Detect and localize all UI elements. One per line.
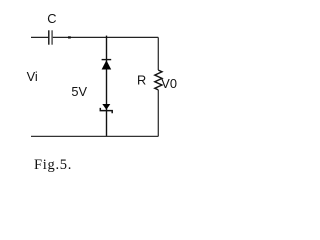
- wire: top rail capacitor to right corner: [53, 36, 159, 38]
- svg-text:5V: 5V: [71, 84, 87, 99]
- wire: bottom rail: [31, 135, 158, 137]
- svg-text:C: C: [47, 11, 56, 26]
- svg-text:R: R: [137, 73, 146, 88]
- diode D1 cathode bar: [102, 59, 112, 61]
- resistor R zigzag: [155, 70, 162, 90]
- wire: right branch lower: [157, 90, 159, 136]
- wire: top input stub to capacitor: [31, 36, 48, 38]
- svg-text:Fig.5.: Fig.5.: [34, 157, 72, 173]
- svg-text:Vi: Vi: [27, 69, 38, 84]
- wire: middle vertical branch: [106, 36, 108, 137]
- zener D2 triangle: [102, 104, 110, 110]
- capacitor C1 plate right: [51, 30, 53, 44]
- capacitor C1 plate left: [48, 30, 50, 44]
- diode D1 triangle: [102, 60, 112, 69]
- wire: right branch upper: [157, 37, 159, 70]
- junction dot on top rail: [68, 36, 71, 38]
- zener D2 bar with hooks: [100, 108, 112, 113]
- svg-text:V0: V0: [161, 76, 177, 91]
